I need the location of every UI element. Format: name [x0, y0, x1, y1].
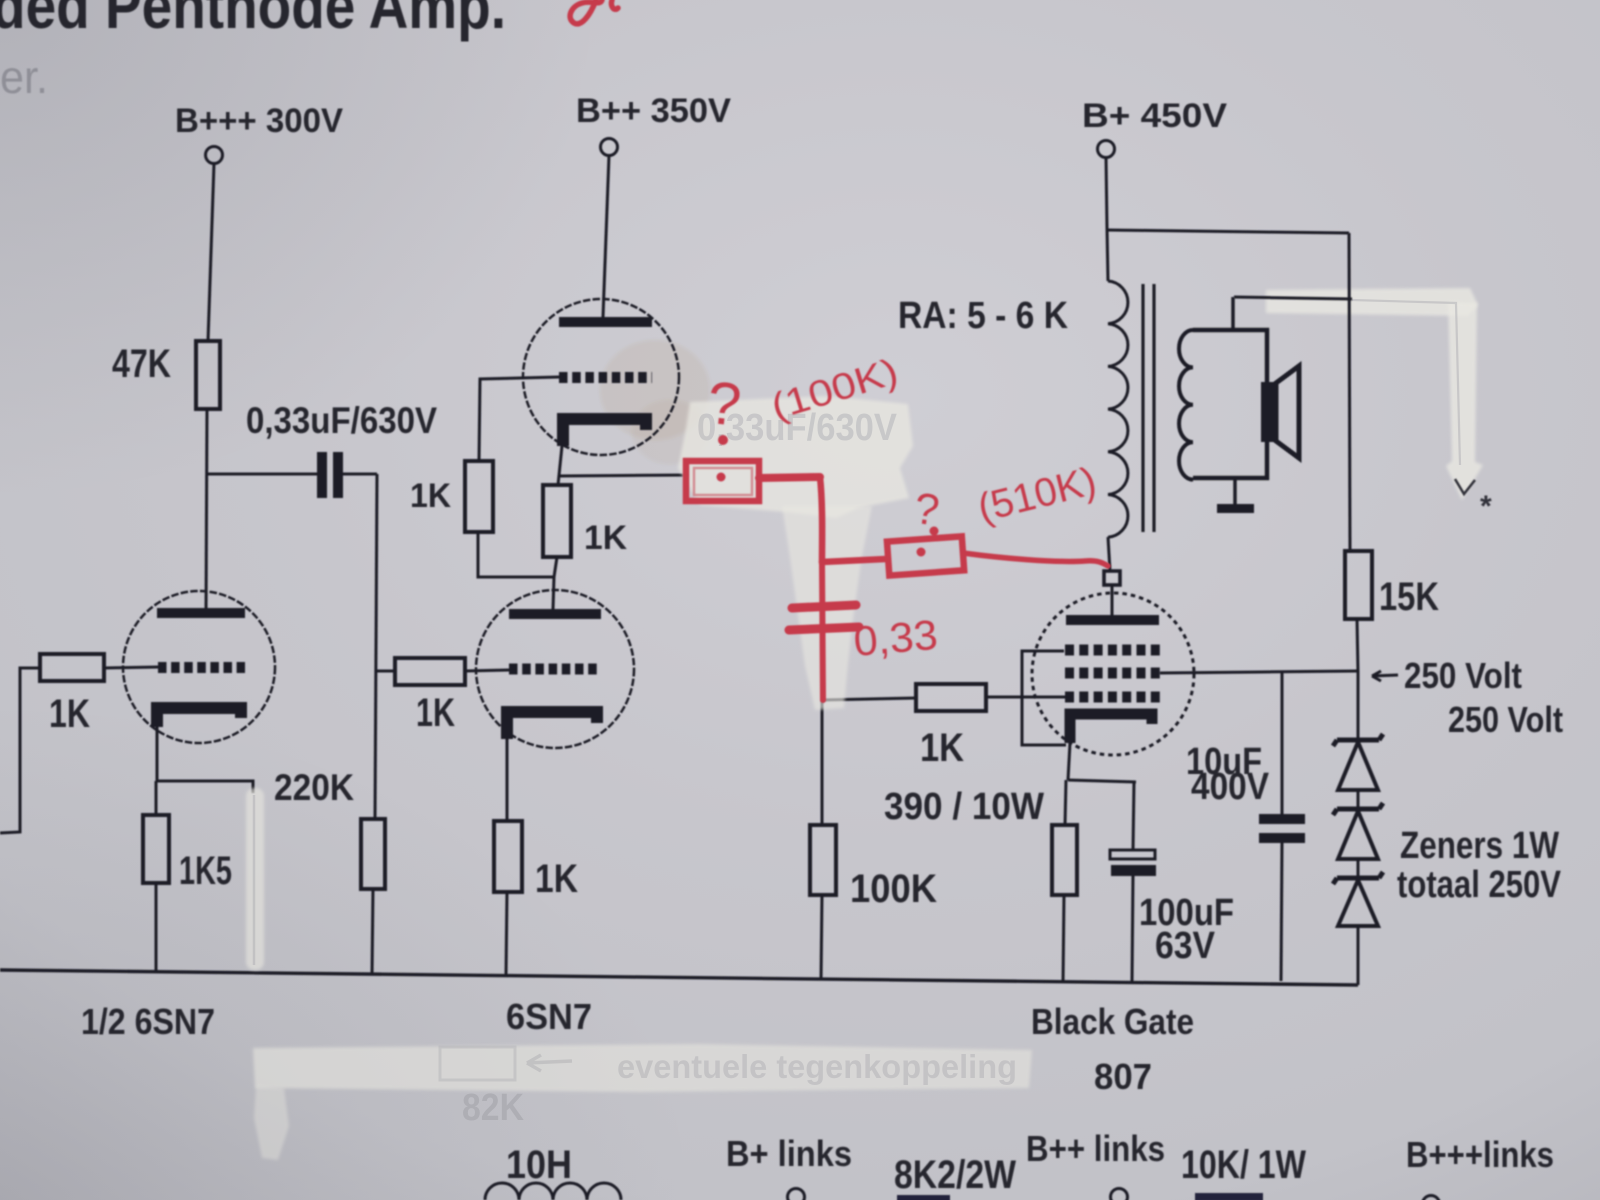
- node B+++ terminal: [206, 147, 223, 164]
- svg-text:10K/ 1W: 10K/ 1W: [1181, 1143, 1306, 1187]
- ghost resistor 82K box: [440, 1047, 515, 1080]
- wire 10uF branch down: [1281, 672, 1284, 814]
- resistor 220K: [361, 819, 385, 889]
- svg-text:47K: 47K: [112, 342, 171, 386]
- wire speaker top lead: [1231, 297, 1235, 330]
- wire 100K to ground bus: [821, 895, 822, 980]
- tube V1 grid (dashed): [158, 662, 245, 673]
- wire junction square to plate: [1111, 585, 1114, 615]
- svg-text:220K: 220K: [274, 767, 354, 808]
- tube 807 grid row 1 (beam plates): [1065, 645, 1160, 656]
- wire B+ to primary: [1107, 228, 1108, 281]
- wire 100uF top lead: [1133, 782, 1134, 850]
- red component box ? (100K replacement): [686, 461, 759, 501]
- svg-text:eventuele tegenkoppeling: eventuele tegenkoppeling: [617, 1048, 1017, 1085]
- wire cathode node to 390 resistor: [1065, 780, 1066, 825]
- wire 47K to tube V1 plate: [206, 409, 207, 612]
- red component box ? (510K replacement): [887, 536, 964, 575]
- red dot in box: [717, 473, 726, 482]
- resistor 1K (807 grid stopper, horizontal): [916, 684, 986, 711]
- resistor 390/10W: [1052, 825, 1077, 895]
- svg-text:1K: 1K: [535, 857, 578, 901]
- wire 1K bottom to lower tube plate: [553, 557, 557, 609]
- white-out drip below blob: [782, 506, 872, 710]
- terminal circle B+++ links (cut off): [1423, 1196, 1440, 1200]
- red wire junction to second box: [822, 559, 886, 562]
- wire stub to grid stopper R: [376, 670, 395, 673]
- tan stain smaller: [632, 400, 708, 464]
- wire plate node to coupling cap: [207, 473, 317, 476]
- resistor 1K (V1 grid stopper, horizontal): [40, 654, 104, 681]
- wire grid node down to 100K: [821, 700, 824, 825]
- tube V2 lower cathode: [507, 712, 597, 739]
- svg-text:0,33uF/630V: 0,33uF/630V: [246, 400, 437, 441]
- svg-text:6SN7: 6SN7: [506, 996, 592, 1037]
- svg-text:B+++links: B+++links: [1406, 1134, 1554, 1175]
- node B+ terminal: [1098, 141, 1115, 158]
- tube V2 lower (SRPP bottom, 6SN7 half) envelope: [476, 590, 634, 748]
- wire grid node vertical down to 220K: [375, 474, 377, 819]
- tan stain near upper middle tube: [600, 340, 710, 440]
- svg-text:ded Penthode Amp.: ded Penthode Amp.: [0, 0, 506, 42]
- wire B+ branch vertical (over white-out): [1349, 233, 1350, 551]
- resistor 1K grid stopper V2 lower (horizontal): [395, 658, 465, 685]
- wire 807 cathode down: [1068, 743, 1070, 780]
- terminal circle B++ links: [1111, 1189, 1128, 1200]
- resistor 1K (upper grid stopper): [465, 461, 493, 532]
- wire cathode down to 1K: [506, 739, 509, 821]
- wire B+ down: [1106, 158, 1107, 229]
- red wire down to capacitor: [822, 563, 823, 700]
- wire cap to grid node: [343, 473, 377, 476]
- tube V2 upper (SRPP top, 6SN7 half) envelope: [523, 299, 679, 455]
- wire to 1K5: [155, 781, 158, 815]
- resistor 100K: [810, 825, 836, 895]
- red capacitor 0,33 plate 2: [789, 627, 859, 630]
- tube V2 lower grid (dashed): [509, 664, 601, 675]
- svg-text:8K2/2W: 8K2/2W: [894, 1153, 1016, 1197]
- wire zener1 to zener2: [1357, 790, 1360, 809]
- wire 220K to ground bus: [372, 889, 373, 975]
- resistor 1K (SRPP cathode): [543, 485, 571, 557]
- wire 1K to grid of lower tube: [465, 670, 509, 671]
- wire cathode node to 100uF: [1068, 780, 1136, 782]
- ghost line under right white-out: [1352, 300, 1460, 465]
- tube 807 grid row 2 (screen): [1065, 668, 1160, 679]
- tube V2 upper plate: [559, 317, 652, 327]
- capacitor 0,33uF/630V: [317, 452, 343, 498]
- wire 1K bottom jog to lower plate node: [478, 532, 553, 577]
- svg-text:100K: 100K: [850, 867, 937, 911]
- ghost arrow left: [527, 1055, 572, 1071]
- speaker cone: [1276, 366, 1299, 458]
- wire 100uF to ground bus: [1132, 876, 1133, 982]
- zener diode D2: [1333, 803, 1383, 815]
- svg-text:250 Volt: 250 Volt: [1404, 655, 1522, 696]
- svg-text:B++ links: B++ links: [1026, 1128, 1165, 1169]
- svg-text:400V: 400V: [1191, 766, 1270, 808]
- wire grid node to 1K: [823, 698, 916, 700]
- svg-text:15K: 15K: [1379, 575, 1439, 619]
- node B++ terminal: [601, 139, 618, 156]
- ground (speaker): [1217, 504, 1254, 513]
- svg-text:1K: 1K: [49, 692, 90, 736]
- svg-text:390 / 10W: 390 / 10W: [884, 786, 1044, 828]
- svg-text:0,33: 0,33: [852, 611, 940, 665]
- capacitor 10uF 400V: [1259, 814, 1305, 843]
- wire 390 to ground bus: [1063, 895, 1064, 983]
- svg-text:1/2 6SN7: 1/2 6SN7: [81, 1001, 215, 1042]
- white-out streak (vertical right) with arrow tip: [1446, 302, 1483, 500]
- wire speaker top to 15K line (over white-out): [1234, 297, 1352, 299]
- junction square to 807 plate: [1104, 571, 1120, 585]
- svg-text:250 Volt: 250 Volt: [1448, 699, 1563, 740]
- svg-text:RA: 5 - 6 K: RA: 5 - 6 K: [898, 295, 1068, 337]
- resistor 10K (cut off at bottom): [1195, 1193, 1263, 1200]
- tube V1 cathode: [157, 708, 241, 727]
- resistor 8K2 (cut off at bottom): [897, 1195, 950, 1200]
- white-out band over old feedback network: [253, 1044, 1032, 1092]
- svg-text:1K: 1K: [920, 726, 964, 770]
- wire 10uF to ground bus: [1281, 843, 1282, 981]
- capacitor 100uF 63V (electrolytic): [1110, 850, 1155, 859]
- zener diode D3: [1333, 872, 1383, 884]
- transformer T1 primary winding: [1108, 281, 1128, 537]
- red wire second box to transformer node: [963, 553, 1108, 566]
- red dot under ?: [718, 435, 728, 445]
- svg-text:er.: er.: [0, 51, 48, 103]
- tube 807 cathode: [1070, 714, 1152, 743]
- choke 10H winding (bottom edge): [485, 1183, 621, 1200]
- wire grid to stopper: [479, 377, 559, 461]
- tube V2 upper grid (dashed): [559, 372, 652, 383]
- wire B++ down to V2 upper plate: [603, 156, 609, 318]
- wire node to zener 1: [1357, 672, 1360, 740]
- speaker driver: [1261, 382, 1276, 442]
- white-out streak over old feedback wire (vertical, left): [246, 788, 264, 970]
- tube V1 (1/2 6SN7) envelope: [123, 591, 275, 743]
- wire B+++ down to 47K: [208, 164, 214, 342]
- wire 1K5 to ground bus: [155, 883, 158, 971]
- svg-text:Black Gate: Black Gate: [1031, 1001, 1194, 1042]
- svg-text:Zeners 1W: Zeners 1W: [1400, 825, 1559, 867]
- wire input from left edge: [0, 668, 40, 833]
- tube V2 upper cathode: [563, 419, 646, 446]
- wire control grid line: [986, 696, 1065, 699]
- resistor 15K: [1345, 551, 1372, 619]
- zener diode D1: [1333, 734, 1383, 746]
- svg-text:B+ links: B+ links: [726, 1133, 852, 1174]
- wire 1K to ground bus: [506, 892, 507, 974]
- tube V3 807 envelope: [1032, 593, 1194, 755]
- wire 15K to regulator node: [1357, 619, 1358, 672]
- svg-text:82K: 82K: [462, 1087, 524, 1129]
- svg-text:B+++ 300V: B+++ 300V: [175, 102, 343, 140]
- wire V1 cathode down: [156, 727, 159, 781]
- wire zener2 to zener3: [1357, 859, 1360, 878]
- ground bus wire: [0, 970, 1358, 985]
- svg-text:1K: 1K: [416, 691, 455, 735]
- red capacitor 0,33 plate 1: [792, 605, 856, 608]
- wire zener3 to ground bus: [1357, 926, 1360, 985]
- red wire corner down: [820, 477, 822, 563]
- white-out drip at left of band: [254, 1086, 289, 1160]
- resistor 1K5: [143, 815, 169, 883]
- tube V1 plate: [157, 608, 245, 618]
- red wire box to corner: [759, 477, 820, 478]
- wire SRPP output to red cap node: [558, 475, 688, 476]
- white-out blob over old coupling cap label: [678, 396, 913, 518]
- tube 807 plate: [1066, 615, 1159, 625]
- svg-text:?: ?: [704, 369, 744, 439]
- wire primary bottom to junction square: [1108, 537, 1110, 571]
- transformer T1 core: [1143, 284, 1154, 532]
- wire screen grid to regulator node: [1160, 671, 1358, 673]
- red squiggle at top (cut off): [570, 0, 618, 24]
- svg-text:63V: 63V: [1155, 925, 1216, 967]
- svg-text:10H: 10H: [506, 1143, 572, 1187]
- resistor 47K: [196, 341, 220, 409]
- wire beam plates tied to cathode (bracket): [1022, 651, 1066, 745]
- arrow at 250 Volt: [1372, 671, 1398, 681]
- svg-text:1K: 1K: [410, 477, 451, 515]
- speaker box outline: [1193, 330, 1267, 478]
- svg-text:807: 807: [1094, 1056, 1152, 1097]
- hand-drawn arrowhead (pen): [1455, 479, 1475, 494]
- tube 807 grid row 3 (control grid): [1065, 692, 1160, 703]
- red dot in second box: [917, 548, 926, 557]
- wire upper cathode down to 1K cathode resistor: [558, 446, 562, 485]
- wire cathode node horizontal (old feedback tap): [157, 781, 253, 793]
- resistor 1K (lower cathode): [494, 821, 522, 892]
- svg-text:1K5: 1K5: [179, 849, 232, 893]
- svg-text:B++ 350V: B++ 350V: [576, 92, 731, 130]
- wire speaker bottom lead: [1233, 478, 1237, 504]
- svg-text:1K: 1K: [584, 519, 627, 557]
- svg-text:B+ 450V: B+ 450V: [1082, 97, 1227, 135]
- red dot under second ?: [930, 527, 939, 536]
- tube V2 lower plate: [509, 609, 601, 619]
- wire 1K to V1 grid: [104, 667, 158, 668]
- transformer T1 secondary winding: [1179, 330, 1193, 480]
- white-out streak over old output feedback line (horizontal): [1266, 288, 1478, 316]
- svg-text:*: *: [1480, 490, 1492, 523]
- terminal circle B+ links: [788, 1189, 805, 1200]
- wire B+ branch right: [1107, 230, 1349, 233]
- ghost feedback wire: [253, 795, 256, 965]
- svg-text:totaal 250V: totaal 250V: [1397, 864, 1562, 906]
